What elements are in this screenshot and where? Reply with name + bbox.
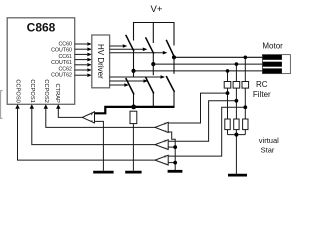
svg-text:CCPOS2: CCPOS2 (43, 79, 49, 102)
svg-text:HV Driver: HV Driver (96, 44, 105, 79)
svg-text:CC62: CC62 (58, 66, 72, 72)
svg-text:Filter: Filter (253, 90, 271, 99)
svg-text:CCPOS1: CCPOS1 (29, 79, 35, 102)
svg-text:RC: RC (256, 80, 268, 89)
svg-text:COUT62: COUT62 (51, 73, 72, 79)
svg-text:V+: V+ (151, 4, 163, 15)
svg-text:CC61: CC61 (58, 54, 72, 60)
svg-text:CC60: CC60 (58, 41, 72, 47)
svg-text:CTRAP: CTRAP (54, 84, 60, 103)
svg-text:COUT61: COUT61 (51, 60, 72, 66)
svg-text:C868: C868 (27, 21, 56, 35)
svg-text:Star: Star (261, 145, 275, 154)
svg-text:Motor: Motor (262, 42, 283, 51)
svg-text:virtual: virtual (259, 136, 279, 145)
svg-text:COUT60: COUT60 (51, 48, 72, 54)
svg-text:CCPOS0: CCPOS0 (15, 79, 21, 102)
